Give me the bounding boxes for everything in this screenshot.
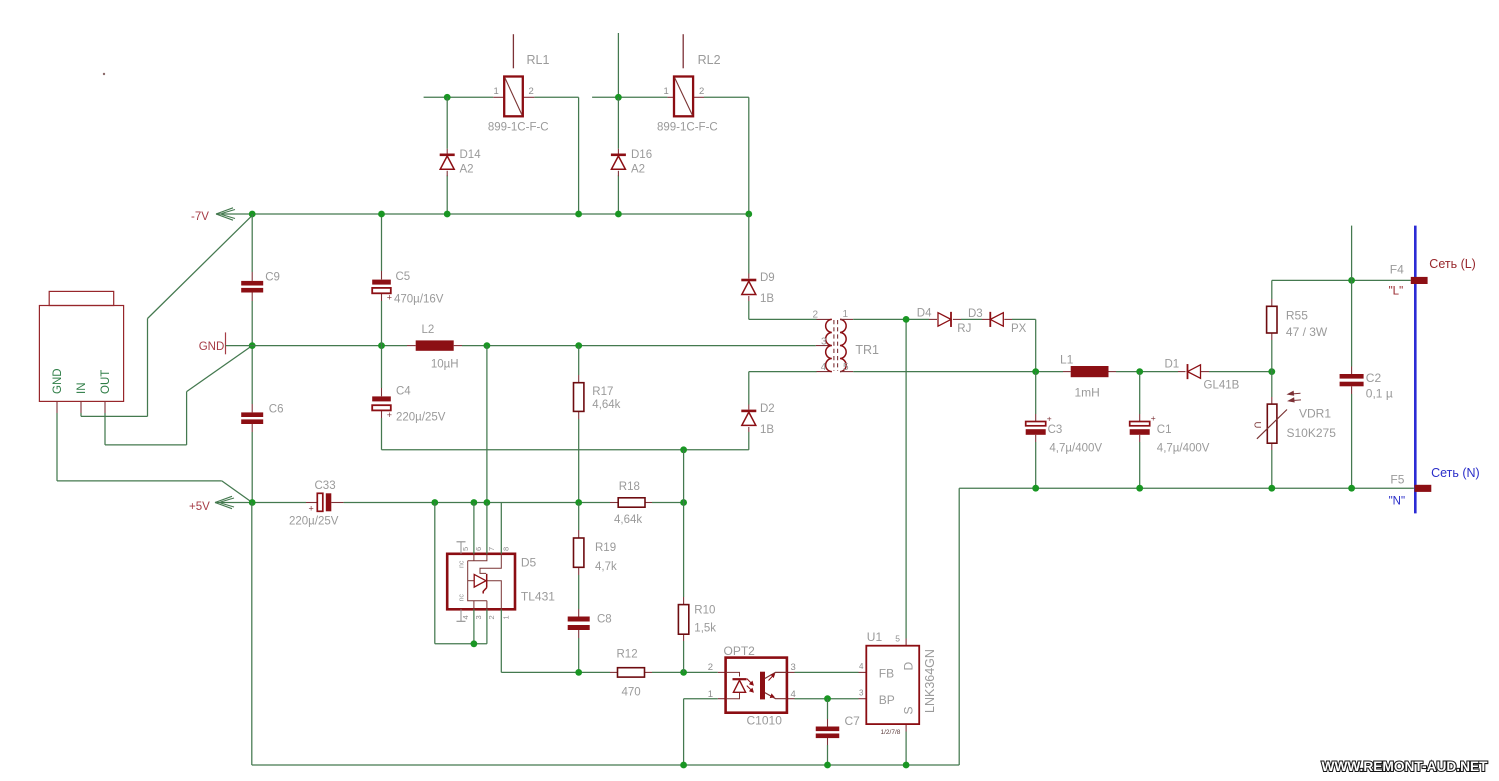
svg-text:1B: 1B	[760, 424, 774, 436]
wire: D4 to D3	[961, 318, 982, 320]
svg-text:C3: C3	[1048, 424, 1063, 436]
wire: D5 pin6 from +5V row	[473, 503, 475, 554]
OPT2 LED light arrows	[747, 679, 753, 685]
svg-text:VDR1: VDR1	[1299, 407, 1331, 421]
junction: -7V node	[249, 211, 256, 218]
svg-text:1: 1	[664, 86, 669, 97]
svg-text:220µ/25V: 220µ/25V	[289, 516, 339, 528]
relay RL1 coil	[493, 96, 504, 98]
wire: TR1 pin1 to D4	[840, 318, 853, 320]
junction: OPT2 pin1 on bottom rail	[680, 762, 687, 769]
svg-text:C5: C5	[396, 271, 411, 283]
svg-text:GND: GND	[199, 341, 225, 353]
svg-text:4,7µ/400V: 4,7µ/400V	[1049, 442, 1102, 454]
resistor R12	[610, 671, 618, 673]
junction: RL2 pin2 / D9 on rail	[745, 211, 752, 218]
svg-text:+: +	[1151, 413, 1156, 423]
net label +5V	[215, 496, 234, 508]
svg-text:4,7k: 4,7k	[595, 561, 617, 573]
svg-text:2: 2	[529, 86, 534, 97]
junction: C5 on -7V rail	[378, 211, 385, 218]
capacitor C4 (polarized)	[372, 396, 391, 401]
svg-text:+: +	[309, 504, 314, 514]
svg-text:LNK364GN: LNK364GN	[923, 649, 937, 713]
svg-text:D14: D14	[460, 149, 482, 161]
capacitor C33 (polarized, series)	[306, 502, 317, 504]
inductor L1	[1063, 371, 1071, 373]
svg-text:Сеть (L): Сеть (L)	[1429, 257, 1476, 271]
svg-text:C9: C9	[265, 272, 280, 284]
junction: R17 top	[575, 342, 582, 349]
connector SV1 body	[39, 306, 123, 402]
wire: TR1 pin5 row to L1	[840, 371, 853, 373]
terminal F4	[1411, 277, 1428, 284]
wire: D5 pin8 from +5V row	[500, 503, 502, 554]
svg-text:5: 5	[461, 547, 470, 551]
capacitor C6	[241, 412, 263, 417]
svg-text:470: 470	[622, 687, 641, 699]
svg-text:FB: FB	[879, 667, 894, 681]
diode D3	[982, 318, 990, 320]
svg-text:D4: D4	[917, 307, 932, 319]
svg-text:C2: C2	[1366, 371, 1382, 385]
wire: D5 pin7 from +5V row	[486, 503, 488, 554]
svg-text:3: 3	[474, 615, 483, 619]
wire: C5 column	[381, 214, 383, 271]
svg-text:4: 4	[821, 362, 827, 373]
junction: C1 node	[1136, 368, 1143, 375]
D5 internal TL431 symbol	[468, 554, 502, 610]
svg-text:1mH: 1mH	[1075, 386, 1100, 400]
junction: HV+ node	[1032, 368, 1039, 375]
diode D2	[748, 372, 750, 405]
wire: RL1 pin2 to -7V rail	[534, 96, 578, 98]
varistor VDR1	[1271, 372, 1273, 397]
junction: R55/VDR1 node	[1268, 368, 1275, 375]
IC U1 LNK364GN box	[859, 671, 867, 673]
svg-text:R12: R12	[617, 649, 638, 661]
D5 pin5 nc tick	[457, 541, 466, 543]
wire: stub above RL2/D16 node	[617, 33, 619, 97]
wire: N row	[959, 487, 1414, 489]
wire: connector IN to -7V (diagonal)	[80, 401, 82, 413]
junction: C2 top on L row	[1348, 277, 1355, 284]
wire: L1 to D1	[1116, 371, 1178, 373]
svg-text:BP: BP	[879, 693, 895, 707]
svg-text:WWW.REMONT-AUD.NET: WWW.REMONT-AUD.NET	[1322, 759, 1488, 775]
IC D5 TL431 box	[447, 554, 515, 610]
transformer TR1	[816, 345, 832, 347]
svg-text:1: 1	[494, 86, 499, 97]
wire: OPT2 pin4 to U1 BP	[795, 698, 859, 700]
wire: C4 column	[381, 346, 383, 388]
junction: RL1 pin2 on rail	[575, 211, 582, 218]
svg-text:R19: R19	[595, 542, 616, 554]
svg-text:D9: D9	[760, 272, 775, 284]
svg-text:RJ: RJ	[957, 323, 971, 335]
capacitor C7	[827, 699, 829, 719]
speck artifact top-left	[103, 73, 105, 75]
wire: row from C4 to D2 (y=449.8)	[382, 449, 749, 451]
wire: R18 to R10 column	[652, 502, 684, 504]
svg-text:TR1: TR1	[855, 343, 879, 357]
wire: L2 to TR1 pin3	[462, 345, 816, 347]
svg-text:Сеть (N): Сеть (N)	[1431, 466, 1480, 480]
junction: R17/R19 on +5V row	[575, 499, 582, 506]
svg-text:C1: C1	[1157, 424, 1172, 436]
svg-text:0,1 µ: 0,1 µ	[1366, 387, 1393, 401]
junction: C1 on N row	[1136, 485, 1143, 492]
svg-text:+: +	[1047, 413, 1052, 423]
svg-text:RL2: RL2	[698, 53, 721, 67]
junction: U1 source on bottom rail	[903, 762, 910, 769]
junction: GND node	[249, 342, 256, 349]
svg-text:R17: R17	[592, 386, 613, 398]
svg-text:nc: nc	[459, 560, 466, 568]
wire: RL2 pin1 row	[592, 96, 667, 98]
terminal F5	[1415, 485, 1432, 492]
svg-text:F5: F5	[1390, 473, 1404, 487]
wire: D1 to R55/VDR node	[1209, 371, 1272, 373]
junction: D16 on -7V rail	[615, 211, 622, 218]
junction: R10 top on row	[680, 446, 687, 453]
wire: -7V rail	[216, 213, 749, 215]
svg-text:6: 6	[474, 547, 483, 551]
svg-text:C4: C4	[396, 386, 411, 398]
svg-text:4: 4	[859, 662, 864, 671]
svg-text:GL41B: GL41B	[1204, 380, 1240, 392]
svg-text:7: 7	[487, 547, 496, 551]
wire: bottom rail	[252, 764, 959, 766]
svg-text:C33: C33	[315, 480, 336, 492]
junction: D5 pin3 node	[471, 640, 478, 647]
svg-text:470µ/16V: 470µ/16V	[394, 294, 444, 306]
capacitor C1	[1139, 372, 1141, 414]
junction: C2 on N row	[1348, 485, 1355, 492]
svg-text:R55: R55	[1286, 309, 1308, 323]
svg-text:R10: R10	[694, 605, 715, 617]
svg-text:C1010: C1010	[747, 714, 783, 728]
svg-text:L1: L1	[1060, 353, 1074, 367]
svg-text:10µH: 10µH	[431, 359, 459, 371]
wire: left column +5V node to bottom rail	[251, 503, 253, 766]
capacitor C5 (polarized)	[372, 280, 391, 285]
junction: C8 bottom on feedback row	[575, 669, 582, 676]
junction: D5 pin6 on +5V row	[471, 499, 478, 506]
wire: GND rail to L2	[252, 345, 407, 347]
svg-text:4,64k: 4,64k	[592, 399, 620, 411]
svg-text:U: U	[1252, 422, 1263, 429]
junction: D5 pin7 on +5V row	[484, 499, 491, 506]
svg-text:"L": "L"	[1389, 286, 1404, 298]
relay RL2 coil	[667, 96, 674, 98]
resistor R19	[578, 503, 580, 531]
optocoupler OPT2 box	[718, 671, 726, 673]
wire: connector GND pin to +5V node	[56, 401, 58, 413]
junction: C5/C4 on GND rail	[378, 342, 385, 349]
OPT2 phototransistor	[760, 672, 765, 700]
svg-text:8: 8	[502, 547, 511, 551]
svg-text:U1: U1	[867, 630, 883, 644]
wire: connector OUT to GND node	[104, 401, 106, 413]
svg-text:2: 2	[699, 86, 704, 97]
junction: R10 bottom / R12 / OPT2	[680, 669, 687, 676]
resistor R10	[683, 450, 685, 503]
svg-text:GND: GND	[52, 368, 64, 394]
svg-text:3: 3	[821, 336, 827, 347]
svg-text:1: 1	[843, 309, 849, 320]
svg-text:OUT: OUT	[100, 370, 112, 394]
svg-text:899-1C-F-C: 899-1C-F-C	[488, 121, 549, 133]
capacitor C3	[1035, 372, 1037, 414]
svg-text:47 / 3W: 47 / 3W	[1286, 325, 1328, 339]
mains bus (blue)	[1414, 226, 1417, 514]
wire: D16 column lower	[617, 176, 619, 215]
svg-text:3: 3	[791, 662, 796, 673]
svg-text:2: 2	[812, 310, 818, 321]
svg-text:-7V: -7V	[191, 211, 209, 223]
junction: C7 on bottom rail	[824, 762, 831, 769]
svg-text:"N": "N"	[1389, 496, 1405, 508]
svg-text:3: 3	[859, 689, 864, 698]
svg-text:+5V: +5V	[189, 501, 210, 513]
wire: D5 pin2 down	[486, 609, 488, 644]
resistor R18	[610, 502, 618, 504]
wire: D5 pin1 down to feedback row	[500, 609, 502, 672]
svg-text:899-1C-F-C: 899-1C-F-C	[657, 121, 718, 133]
wire: R12 to OPT2 pin2	[652, 671, 718, 673]
OPT2 internal LED	[726, 672, 740, 698]
svg-text:4,64k: 4,64k	[614, 514, 642, 526]
wire: mid column x=486.9	[486, 346, 488, 503]
svg-text:RL1: RL1	[527, 53, 550, 67]
svg-text:C8: C8	[597, 614, 612, 626]
capacitor C2	[1351, 280, 1353, 366]
resistor R17	[578, 346, 580, 375]
svg-text:220µ/25V: 220µ/25V	[396, 412, 446, 424]
svg-text:+: +	[387, 410, 392, 420]
diode D14	[446, 149, 448, 154]
svg-text:C6: C6	[269, 404, 284, 416]
svg-text:2: 2	[708, 662, 713, 673]
junction: RL2 pin1 / D16	[615, 94, 622, 101]
svg-text:4: 4	[461, 615, 470, 619]
svg-text:D3: D3	[968, 308, 983, 320]
junction: x=434.8 on +5V row	[431, 499, 438, 506]
wire: U1 source to bottom rail	[905, 732, 907, 766]
diode D9	[748, 214, 750, 274]
junction: RL1 pin1 / D14	[444, 94, 451, 101]
svg-text:D: D	[902, 662, 916, 671]
svg-text:1,5k: 1,5k	[694, 623, 716, 635]
D5 pin4 nc tick	[457, 620, 466, 622]
svg-text:A2: A2	[460, 164, 474, 176]
svg-text:D5: D5	[521, 556, 537, 570]
svg-text:5: 5	[895, 634, 900, 644]
svg-text:1/2/7/8: 1/2/7/8	[881, 729, 901, 736]
wire: +5V row left	[215, 502, 306, 504]
net label GND	[225, 332, 227, 354]
junction: C3 on N row	[1032, 485, 1039, 492]
svg-text:D16: D16	[631, 149, 652, 161]
TR1 core dashes	[833, 320, 835, 371]
inductor L2	[407, 345, 416, 347]
svg-text:IN: IN	[76, 383, 88, 395]
wire: RL2 pin2 to -7V rail	[704, 96, 749, 98]
diode D4	[929, 318, 937, 320]
svg-text:nc: nc	[459, 594, 466, 602]
junction: +5V node	[249, 499, 256, 506]
svg-text:2: 2	[487, 615, 496, 619]
wire: stub above C2 column	[1351, 226, 1353, 281]
wire: OPT2 pin3 to U1 FB	[795, 671, 859, 673]
svg-text:+: +	[387, 293, 392, 303]
wire: feedback row to R12	[501, 671, 610, 673]
junction: D14 on -7V rail	[444, 211, 451, 218]
svg-text:C7: C7	[845, 714, 861, 728]
svg-text:L2: L2	[422, 324, 435, 336]
wire: D16 column upper	[617, 97, 619, 149]
junction: secondary mid node	[484, 342, 491, 349]
diode D16	[617, 149, 619, 154]
wire: C9/C6 column	[251, 214, 253, 272]
svg-text:F4: F4	[1390, 263, 1404, 277]
wire: left branch x=434.8	[434, 503, 436, 644]
wire: OPT2 pin1 to bottom rail	[684, 698, 718, 700]
svg-text:1: 1	[502, 615, 511, 619]
net label -7V	[216, 208, 235, 220]
junction: R10 on +5V row	[680, 499, 687, 506]
svg-text:D2: D2	[760, 403, 775, 415]
svg-text:S10K275: S10K275	[1287, 426, 1337, 440]
svg-text:1B: 1B	[760, 293, 774, 305]
capacitor C9	[241, 281, 263, 286]
junction: drain tap on pin1 row	[903, 316, 910, 323]
junction: VDR1 on N row	[1268, 485, 1275, 492]
svg-text:S: S	[902, 706, 916, 714]
diode D1	[1178, 371, 1186, 373]
capacitor C8	[578, 575, 580, 609]
wire: D14 column upper	[446, 97, 448, 149]
svg-text:D1: D1	[1165, 359, 1180, 371]
svg-text:4,7µ/400V: 4,7µ/400V	[1157, 442, 1210, 454]
svg-text:R18: R18	[619, 481, 640, 493]
svg-text:TL431: TL431	[521, 590, 555, 604]
svg-text:A2: A2	[631, 164, 645, 176]
wire: +5V row right of C33	[344, 502, 610, 504]
svg-text:PX: PX	[1011, 323, 1027, 335]
svg-text:OPT2: OPT2	[724, 644, 756, 658]
wire: U1 drain column	[905, 319, 907, 638]
VDR1 arrows	[1288, 391, 1301, 395]
resistor R55	[1271, 280, 1273, 299]
wire: D5 pin3 down	[473, 609, 475, 644]
junction: C7 top on BP row	[824, 695, 831, 702]
wire: bottom rail up to N row	[958, 488, 960, 765]
wire: D5 bottom row	[435, 643, 487, 645]
wire: D3 to HV+ node	[1012, 318, 1036, 320]
wire: relay row RL1 pin1 stub	[424, 96, 494, 98]
wire: L row (F4)	[1272, 279, 1411, 281]
wire: D14 column lower	[446, 176, 448, 215]
